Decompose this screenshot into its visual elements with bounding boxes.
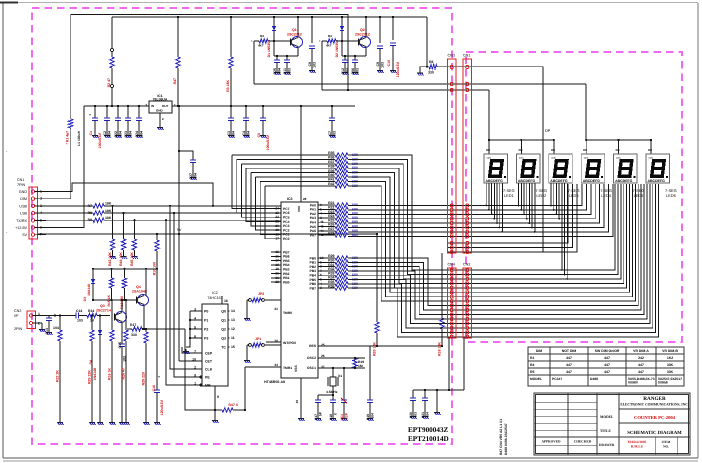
- svg-text:NO.: NO.: [663, 445, 669, 449]
- svg-text:P1: P1: [204, 319, 208, 323]
- svg-text:OSC1: OSC1: [307, 366, 316, 370]
- wire 5V out line: [172, 105, 355, 107]
- connector CN1 pin 7 5V: [31, 233, 34, 236]
- svg-text:104: 104: [345, 68, 349, 74]
- crystal X1 4.5MHz: [330, 377, 336, 386]
- svg-text:2SC2712: 2SC2712: [287, 33, 302, 37]
- svg-text:330: 330: [131, 333, 137, 337]
- wire display common rails: [488, 90, 490, 140]
- capacitor C9 103 collector: [379, 17, 381, 43]
- svg-text:D4: D4: [89, 360, 93, 365]
- svg-text:74HC161: 74HC161: [207, 296, 222, 300]
- svg-text:103: 103: [77, 319, 83, 323]
- svg-text:447: 447: [566, 370, 572, 374]
- svg-text:CN1: CN1: [463, 54, 470, 58]
- svg-text:SCHEMATIC DIAGRAM: SCHEMATIC DIAGRAM: [627, 430, 682, 436]
- svg-text:R43 10K: R43 10K: [108, 252, 112, 266]
- svg-text:R18 18K: R18 18K: [438, 342, 442, 356]
- capacitor C25: [273, 41, 275, 56]
- svg-text:TX/RX: TX/RX: [16, 219, 27, 223]
- board outline 1 (main board, magenta dashed): [32, 8, 452, 444]
- wire bus PB rows to connectors: [348, 258, 471, 306]
- board outline 2 (display board, magenta dashed): [466, 52, 682, 342]
- wire segment bus band A2: [448, 184, 569, 243]
- svg-text:2: 2: [38, 322, 40, 326]
- resistor R28 220: [145, 329, 147, 332]
- svg-text:447: 447: [566, 363, 572, 367]
- svg-text:RES: RES: [309, 344, 317, 348]
- svg-text:VR DIM-B: VR DIM-B: [662, 349, 678, 353]
- svg-text:EPT210014D: EPT210014D: [408, 435, 449, 443]
- svg-text:1K: 1K: [90, 319, 95, 323]
- svg-text:103: 103: [287, 68, 291, 74]
- connector CN1 pin 6 +12.8V: [31, 226, 34, 229]
- svg-text:33K: 33K: [667, 363, 674, 367]
- svg-text:ABCDEFG: ABCDEFG: [648, 179, 666, 183]
- connector CN1 pin 1 GND: [31, 190, 34, 193]
- svg-text:C21: C21: [421, 412, 425, 418]
- svg-text:C12: C12: [341, 68, 345, 75]
- svg-text:R16 1K: R16 1K: [108, 368, 112, 380]
- svg-text:CHECKED: CHECKED: [574, 440, 592, 444]
- svg-text:NOT DIM: NOT DIM: [562, 349, 577, 353]
- svg-text:104: 104: [139, 131, 143, 137]
- diode D3 1N4148: [92, 269, 94, 279]
- svg-text:D1 1N5358: D1 1N5358: [267, 40, 271, 57]
- svg-text:R47: R47: [173, 78, 177, 84]
- svg-text:Q1: Q1: [292, 28, 297, 32]
- svg-text:5V: 5V: [22, 233, 27, 237]
- capacitor C18: [332, 395, 334, 400]
- svg-text:447: 447: [638, 363, 644, 367]
- svg-text:R39: R39: [328, 169, 334, 173]
- svg-text:C16: C16: [152, 385, 156, 391]
- svg-text:29: 29: [295, 400, 299, 404]
- resistor R14 1K: [79, 315, 88, 317]
- svg-text:R1: R1: [530, 356, 534, 360]
- svg-text:R38: R38: [328, 164, 334, 168]
- svg-text:C11: C11: [283, 68, 287, 74]
- connector CN1: [463, 59, 472, 253]
- svg-text:PB0: PB0: [283, 280, 290, 284]
- svg-text:C2: C2: [103, 131, 107, 136]
- svg-text:103: 103: [332, 131, 336, 137]
- svg-text:C5: C5: [257, 133, 261, 137]
- IC1 78L05UA regulator: [149, 101, 172, 113]
- svg-text:CET: CET: [205, 360, 213, 364]
- svg-text:LED6: LED6: [666, 193, 676, 198]
- diode D2 1N5358: [341, 17, 343, 26]
- svg-text:VSS: VSS: [294, 365, 298, 372]
- capacitor C4 104: [245, 106, 247, 118]
- svg-text:R45 10K: R45 10K: [130, 252, 134, 266]
- connector CN1 7PIN: [29, 187, 38, 239]
- wire display2 segment drops: [518, 183, 520, 206]
- resistor R23 680: [327, 213, 335, 215]
- 7-segment display LED4: [581, 154, 605, 183]
- svg-text:0X96V: 0X96V: [628, 381, 639, 385]
- svg-text:C3: C3: [227, 131, 231, 136]
- svg-text:26: 26: [321, 354, 325, 358]
- resistor R20 18K: [376, 318, 378, 322]
- svg-text:TMR0: TMR0: [283, 311, 292, 315]
- connector CN1 pin 4 LSB: [31, 211, 34, 214]
- wire bus bank T to lower connector: [348, 155, 471, 270]
- svg-text:100u/16V: 100u/16V: [266, 134, 270, 150]
- resistor R32 680: [327, 270, 335, 272]
- svg-text:104: 104: [277, 68, 281, 74]
- svg-text:103: 103: [312, 62, 316, 68]
- resistor R42 680: [327, 185, 335, 187]
- svg-text:C14: C14: [76, 309, 82, 313]
- svg-text:103: 103: [355, 68, 359, 74]
- svg-text:C9: C9: [308, 62, 312, 67]
- capacitor C22 104: [117, 106, 119, 118]
- resistor R24 680: [327, 217, 335, 219]
- svg-text:R36: R36: [328, 156, 334, 160]
- svg-text:9: 9: [217, 395, 219, 399]
- svg-text:C19: C19: [366, 414, 370, 420]
- svg-text:P0: P0: [204, 310, 208, 314]
- svg-text:+12.8V: +12.8V: [15, 226, 27, 230]
- wire DP line: [542, 67, 544, 252]
- wire strip bottom to caps: [448, 338, 450, 390]
- svg-text:447: 447: [638, 370, 644, 374]
- svg-text:R4: R4: [530, 363, 534, 367]
- svg-text:VDD: VDD: [297, 205, 301, 212]
- svg-text:R25 22K: R25 22K: [88, 370, 92, 384]
- svg-text:C7: C7: [328, 131, 332, 136]
- svg-text:242: 242: [638, 356, 644, 360]
- wire CN1 DIM to display dim rail: [46, 128, 71, 199]
- wire bias node A: [93, 268, 157, 270]
- capacitor C24 104: [138, 106, 140, 118]
- svg-text:MODEL: MODEL: [600, 415, 614, 419]
- resistor R9 18K: [46, 219, 93, 221]
- capacitor C10 120u/16V: [392, 17, 394, 40]
- svg-text:IN: IN: [151, 104, 154, 108]
- svg-text:GND: GND: [19, 190, 28, 194]
- svg-text:C20: C20: [409, 412, 413, 418]
- wire IC2 left connections: [186, 311, 190, 347]
- connector CN1 pin 2 DIM: [31, 197, 34, 200]
- svg-text:R47 X: R47 X: [228, 403, 238, 407]
- svg-text:R5: R5: [530, 370, 534, 374]
- svg-text:Q3: Q3: [100, 304, 105, 308]
- svg-text:R41: R41: [328, 178, 334, 182]
- resistor R37 680: [327, 163, 335, 165]
- svg-text:R9: R9: [88, 218, 92, 222]
- svg-text:R2 47: R2 47: [107, 78, 111, 87]
- wire top V+ rail: [112, 16, 427, 18]
- svg-text:103: 103: [413, 412, 417, 418]
- svg-text:RANGER: RANGER: [643, 396, 666, 402]
- svg-text:DIM: DIM: [536, 349, 542, 353]
- capacitor C9 103 collector: [311, 17, 313, 43]
- resistor R21 680: [327, 204, 335, 206]
- svg-text:R7: R7: [88, 204, 92, 208]
- svg-text:* R1 4x7: * R1 4x7: [66, 131, 70, 144]
- svg-text:D3: D3: [83, 297, 87, 301]
- svg-text:I/P: I/P: [14, 314, 19, 318]
- svg-text:VC1: VC1: [340, 414, 344, 421]
- capacitor C5 100u/16V: [262, 106, 264, 118]
- 7-segment display LED1: [484, 154, 508, 183]
- resistor R33 680: [327, 274, 335, 276]
- svg-text:ABCDEFG: ABCDEFG: [550, 179, 568, 183]
- svg-text:P3: P3: [204, 337, 208, 341]
- resistor R6 330: [419, 71, 421, 74]
- svg-text:SW DIM On/Off: SW DIM On/Off: [595, 349, 620, 353]
- wire CN1 GND: [46, 183, 213, 206]
- resistor R15 1K: [111, 269, 113, 278]
- svg-text:ABCDEFG: ABCDEFG: [486, 179, 504, 183]
- svg-text:ITEM: ITEM: [662, 440, 672, 444]
- resistor R22 680: [327, 208, 335, 210]
- svg-text:MODEL: MODEL: [530, 377, 542, 381]
- svg-text:MAR/4/2005: MAR/4/2005: [628, 440, 647, 444]
- resistor R44 10K pulldown: [123, 212, 125, 214]
- svg-text:PA7: PA7: [310, 233, 316, 237]
- svg-text:CN2: CN2: [14, 309, 21, 313]
- svg-text:Q3: Q3: [221, 337, 226, 341]
- svg-text:2SC2712: 2SC2712: [355, 33, 370, 37]
- svg-text:R4: R4: [260, 34, 264, 38]
- svg-text:1N4148: 1N4148: [93, 368, 97, 380]
- capacitor C27 104: [179, 151, 193, 160]
- svg-text:C10: C10: [387, 60, 391, 66]
- diode D1 1N5358: [273, 17, 275, 26]
- svg-text:R26 47: R26 47: [122, 368, 126, 379]
- svg-text:2SC2714: 2SC2714: [96, 309, 111, 313]
- svg-text:13: 13: [231, 318, 235, 322]
- svg-text:USB: USB: [19, 204, 27, 208]
- svg-text:104: 104: [128, 131, 132, 137]
- resistor R43 10K pulldown: [111, 205, 113, 207]
- connector CN3: [448, 59, 457, 253]
- svg-text:IC2: IC2: [212, 291, 218, 295]
- wire CN2 input: [33, 315, 76, 317]
- resistor R34 680: [327, 279, 335, 281]
- resistor R40 680: [327, 176, 335, 178]
- svg-text:Q2: Q2: [360, 28, 365, 32]
- svg-text:4.5MHz: 4.5MHz: [326, 390, 338, 394]
- svg-text:ABCDEFG: ABCDEFG: [583, 179, 601, 183]
- svg-text:X1: X1: [338, 374, 342, 378]
- resistor R28 680: [327, 234, 335, 236]
- transistor Q4 2SA1048: [138, 295, 149, 306]
- capacitor C12: [341, 41, 343, 56]
- resistor R3 18K: [230, 17, 232, 57]
- svg-text:C27: C27: [189, 173, 193, 180]
- svg-text:ABCDEFG: ABCDEFG: [518, 179, 536, 183]
- svg-text:R4: R4: [328, 34, 332, 38]
- capacitor C3 104: [230, 106, 232, 118]
- svg-text:103: 103: [380, 62, 384, 68]
- svg-text:DRAWER: DRAWER: [599, 443, 615, 447]
- connector CN1 pin 5 TX/RX: [31, 219, 34, 222]
- svg-text:PB7: PB7: [309, 286, 316, 290]
- svg-text:5V: 5V: [177, 228, 182, 232]
- resistor R31 680: [327, 266, 335, 268]
- transistor Q1 2SC2712: [292, 37, 303, 48]
- resistor R10 100: [156, 234, 158, 240]
- svg-text:C23: C23: [124, 131, 128, 138]
- capacitor C2 104: [106, 106, 108, 118]
- resistor R35 680: [327, 283, 335, 285]
- svg-text:TMR1: TMR1: [283, 366, 292, 370]
- svg-text:Q0: Q0: [221, 310, 226, 314]
- resistor R26 47: [125, 300, 127, 330]
- resistor R13 220: [123, 269, 125, 278]
- svg-text:104: 104: [193, 173, 197, 179]
- resistor R1 4K7 (L1 100uH) in DIM line: [69, 119, 73, 128]
- svg-text:28: 28: [303, 197, 307, 201]
- svg-text:1M: 1M: [358, 364, 363, 368]
- resistor R19 1M: [354, 358, 356, 359]
- svg-text:C22: C22: [114, 131, 118, 138]
- svg-text:C13: C13: [45, 328, 49, 335]
- svg-text:447: 447: [604, 363, 610, 367]
- svg-text:1K2: 1K2: [667, 356, 673, 360]
- resistor R7 18K: [46, 205, 93, 207]
- svg-text:34: 34: [274, 363, 278, 367]
- svg-text:PE: PE: [205, 376, 210, 380]
- wire segment bus band B (lower displays): [471, 184, 615, 270]
- svg-text:OSC2: OSC2: [307, 356, 316, 360]
- resistor R25 680: [327, 221, 335, 223]
- resistor R30 680: [327, 261, 335, 263]
- svg-text:104: 104: [370, 413, 374, 419]
- svg-text:120u/16V: 120u/16V: [396, 61, 400, 77]
- svg-text:DP: DP: [545, 128, 551, 133]
- capacitor C20 103: [412, 390, 414, 398]
- wire display3 segment drops: [550, 183, 552, 206]
- svg-text:C15: C15: [118, 342, 122, 349]
- svg-text:C1: C1: [89, 131, 93, 135]
- svg-text:PC0: PC0: [283, 237, 290, 241]
- resistor R36 680: [327, 287, 335, 289]
- svg-text:GND: GND: [156, 109, 164, 113]
- svg-text:L1 100uH: L1 100uH: [77, 130, 81, 145]
- svg-text:330: 330: [428, 71, 434, 75]
- svg-text:R14: R14: [88, 309, 94, 313]
- resistor R25 22K: [91, 316, 93, 331]
- resistor R39 680: [327, 172, 335, 174]
- wire TMR1 feed: [244, 367, 246, 410]
- wire 12V in line: [84, 105, 149, 107]
- svg-text:APPROVED: APPROVED: [541, 440, 561, 444]
- svg-text:ELECTRONIC COMMUNICATIONS, I: ELECTRONIC COMMUNICATIONS, INC.: [620, 403, 688, 407]
- svg-text:22P: 22P: [344, 412, 348, 419]
- svg-text:104: 104: [246, 131, 250, 137]
- svg-text:R17: R17: [130, 323, 136, 327]
- capacitor C7 103: [331, 106, 333, 118]
- svg-text:COUNTER PC-2004: COUNTER PC-2004: [634, 415, 676, 420]
- svg-text:18K: 18K: [105, 216, 112, 220]
- svg-text:JP2: JP2: [258, 292, 264, 296]
- wire display1 segment drops: [485, 183, 487, 206]
- svg-text:C24: C24: [135, 131, 139, 138]
- svg-text:CLK: CLK: [205, 368, 213, 372]
- svg-text:7PIN: 7PIN: [17, 183, 26, 187]
- svg-text:R42: R42: [328, 182, 334, 186]
- svg-text:15: 15: [231, 345, 235, 349]
- resistor R29 680: [327, 257, 335, 259]
- svg-text:R15 1K: R15 1K: [107, 294, 111, 306]
- svg-text:16: 16: [224, 299, 228, 303]
- svg-text:LED1: LED1: [504, 193, 514, 198]
- svg-text:LED2: LED2: [536, 193, 546, 198]
- svg-text:4K7: 4K7: [258, 44, 264, 48]
- wire stage outputs to display board: [254, 83, 586, 85]
- svg-text:1N4148: 1N4148: [87, 284, 91, 296]
- svg-text:R20 18K: R20 18K: [373, 342, 377, 356]
- svg-text:104: 104: [231, 131, 235, 137]
- svg-text:447: 447: [604, 370, 610, 374]
- svg-text:21: 21: [274, 307, 278, 311]
- parts option table: [528, 347, 684, 386]
- connector CN2: [463, 268, 472, 338]
- resistor R22 2K: [59, 316, 61, 331]
- capacitor C21 104: [424, 389, 426, 391]
- resistor R16 1K: [111, 300, 113, 330]
- resistor R4: [177, 17, 179, 57]
- IC IC2 74HC161: [202, 304, 228, 386]
- svg-text:CN4: CN4: [448, 263, 455, 267]
- svg-text:2SA1048: 2SA1048: [132, 290, 147, 294]
- resistor R35 680: [327, 154, 335, 156]
- 7-segment display LED3: [549, 154, 573, 183]
- 7-segment display LED6: [646, 154, 670, 183]
- resistor R38 680: [327, 167, 335, 169]
- svg-text:HT46R50-A8: HT46R50-A8: [264, 380, 285, 384]
- wire segment bus band A (upper displays): [348, 184, 582, 206]
- svg-text:MR: MR: [205, 384, 211, 388]
- svg-text:R40: R40: [328, 173, 334, 177]
- svg-text:R22 2K: R22 2K: [56, 370, 60, 382]
- connector CN1 pin 3 USB: [31, 204, 34, 207]
- resistor R17 330: [127, 328, 132, 330]
- svg-text:C06: C06: [351, 68, 355, 75]
- svg-text:Q2: Q2: [221, 328, 226, 332]
- resistor R26 680: [327, 226, 335, 228]
- title block: [534, 393, 690, 455]
- wire bus PC pins fan to bank T: [232, 154, 327, 156]
- capacitor C19 104: [369, 346, 371, 400]
- transistor Q3 2SC2714: [116, 312, 127, 323]
- IC IC3 HT46R50-A8 MCU: [281, 202, 318, 378]
- wire node B: [93, 299, 138, 301]
- svg-text:33K: 33K: [667, 370, 674, 374]
- svg-text:+: +: [89, 113, 91, 117]
- svg-text:R28: R28: [328, 231, 334, 235]
- connector CN2 2PIN: [27, 311, 36, 329]
- svg-text:D2 1N5358: D2 1N5358: [335, 40, 339, 57]
- svg-text:INT/PG0: INT/PG0: [283, 341, 296, 345]
- svg-text:D488: D488: [590, 377, 598, 381]
- svg-text:447: 447: [604, 356, 610, 360]
- connector CN4: [448, 268, 457, 338]
- outer drawing frame: [3, 2, 698, 4]
- capacitor C16 120u/16V: [156, 269, 158, 390]
- svg-text:104: 104: [118, 131, 122, 137]
- svg-text:Q1: Q1: [221, 319, 226, 323]
- svg-text:18K: 18K: [105, 202, 112, 206]
- svg-text:+: +: [158, 375, 160, 379]
- svg-text:C17: C17: [314, 414, 318, 420]
- svg-text:LSB: LSB: [20, 212, 28, 216]
